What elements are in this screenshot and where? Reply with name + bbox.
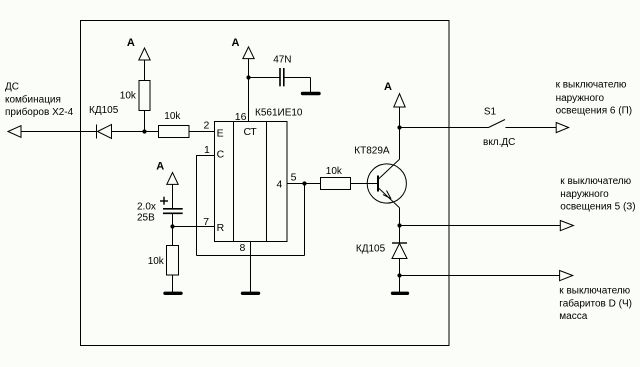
power symbol A (above Q1) <box>384 81 405 128</box>
resistor R4 10k (horizontal) <box>321 166 351 190</box>
svg-text:ДС: ДС <box>5 82 19 93</box>
svg-text:КД105: КД105 <box>89 105 119 116</box>
node: junction output/feedback <box>302 181 306 185</box>
connector arrow (lights switch 5) <box>560 221 573 231</box>
svg-text:освещения 6 (П): освещения 6 (П) <box>556 106 633 117</box>
capacitor C2 2.0x 25В electrolytic <box>137 197 183 224</box>
capacitor C1 47N <box>249 55 311 93</box>
svg-text:габаритов D (Ч): габаритов D (Ч) <box>559 298 632 310</box>
wire: to arrow 3 <box>400 275 560 277</box>
svg-text:А: А <box>232 37 240 49</box>
wire: feedback bottom run <box>197 255 305 257</box>
svg-text:приборов Х2-4: приборов Х2-4 <box>5 106 74 118</box>
wire: left arrow to diode VD1 <box>21 131 96 133</box>
wire: supply node to switch S1 <box>400 127 489 129</box>
svg-text:2: 2 <box>204 119 210 131</box>
power symbol A (above pin 16) <box>232 37 255 59</box>
svg-text:25В: 25В <box>137 213 155 224</box>
svg-text:R: R <box>217 222 225 234</box>
ground (VD2) <box>393 292 408 295</box>
svg-text:к выключателю: к выключателю <box>559 286 630 297</box>
wire: R4 to base <box>351 183 379 185</box>
svg-text:А: А <box>384 81 392 93</box>
svg-text:C: C <box>217 148 225 160</box>
svg-text:К561ИЕ10: К561ИЕ10 <box>255 108 303 119</box>
svg-text:S1: S1 <box>484 106 497 117</box>
svg-text:А: А <box>127 37 135 49</box>
wire: R3 to ground <box>172 275 174 292</box>
svg-text:10k: 10k <box>164 111 181 122</box>
svg-text:комбинация: комбинация <box>5 94 61 106</box>
diode VD1 КД105 (pointing left) <box>89 105 119 139</box>
wire: junction to IC pin 7 <box>173 226 215 228</box>
label: к выключателю наружного освещения 6 (П) <box>556 80 633 117</box>
label: к выключателю габаритов D (Ч) масса <box>559 286 632 322</box>
power symbol A (above C2) <box>156 160 178 208</box>
connector arrow (lights switch 6) <box>556 123 568 133</box>
svg-text:КД105: КД105 <box>356 243 386 254</box>
node: junction supply/collector/S1 <box>397 125 401 129</box>
power symbol A (above R1) <box>127 37 150 80</box>
resistor R2 10k (horizontal) <box>159 111 190 138</box>
label: к выключателю наружного освещения 5 (З) <box>560 176 635 213</box>
wire: IC output to R4 <box>287 183 320 185</box>
node: junction pin16/C47N <box>246 75 250 79</box>
ground (R3) <box>165 292 181 295</box>
svg-text:масса: масса <box>559 311 587 322</box>
connector arrow (dimension lights) <box>560 271 573 281</box>
svg-text:10k: 10k <box>120 91 137 102</box>
svg-text:освещения 5 (З): освещения 5 (З) <box>560 202 635 213</box>
svg-text:4: 4 <box>277 179 283 191</box>
label: ДС комбинация приборов Х2-4 <box>5 82 74 119</box>
wire: emitter down <box>399 208 401 243</box>
node: emitter junction <box>397 223 401 227</box>
wire: R2 to IC pin 2 <box>189 131 214 133</box>
wire: C2 to R3 <box>172 213 174 245</box>
svg-text:47N: 47N <box>273 55 291 66</box>
diode VD2 КД105 (vertical, pointing up) <box>356 243 407 259</box>
svg-text:вкл.ДС: вкл.ДС <box>483 137 515 148</box>
svg-text:наружного: наружного <box>560 189 609 200</box>
node: junction C2/R pin7 <box>170 224 174 228</box>
svg-text:наружного: наружного <box>556 93 605 104</box>
svg-text:1: 1 <box>204 144 210 156</box>
svg-text:10k: 10k <box>326 166 343 177</box>
resistor R3 10k (vertical) <box>148 246 179 276</box>
node: junction R1/main wire <box>142 129 146 133</box>
IC U1 К561ИЕ10 body <box>215 108 303 242</box>
wire: feedback rise to output <box>304 184 306 256</box>
wire: collector up to supply node <box>399 128 401 160</box>
transistor Q1 КТ829А <box>354 146 406 208</box>
resistor R1 10k (vertical) <box>120 81 150 111</box>
connector arrow to X2-4 (left, open triangle) <box>8 126 21 138</box>
ground (C1) <box>303 92 320 95</box>
wire: pin 16 to supply <box>248 59 250 122</box>
wire: R1 to main wire <box>144 111 146 132</box>
svg-text:к выключателю: к выключателю <box>556 80 627 91</box>
wire: pin 1 (C) feedback left/down <box>197 156 215 256</box>
wire: diode to resistor R2 <box>112 131 159 133</box>
svg-text:8: 8 <box>240 242 246 254</box>
enclosure border <box>81 21 450 346</box>
wire: VD2 to ground <box>399 259 401 293</box>
svg-text:E: E <box>217 127 224 139</box>
svg-text:16: 16 <box>235 111 247 123</box>
svg-text:CT: CT <box>244 126 258 138</box>
svg-text:А: А <box>156 160 164 172</box>
ground (pin 8) <box>243 292 259 295</box>
wire: pin 8 to ground <box>250 242 252 293</box>
switch S1 <box>483 106 556 148</box>
wire: emitter to arrow 2 <box>400 225 561 227</box>
svg-text:к выключателю: к выключателю <box>560 176 631 187</box>
svg-text:КТ829А: КТ829А <box>354 146 390 157</box>
svg-text:2.0x: 2.0x <box>137 202 156 213</box>
svg-text:10k: 10k <box>148 256 165 267</box>
svg-text:5: 5 <box>291 172 297 184</box>
svg-text:7: 7 <box>203 216 209 228</box>
node: junction VD2/wire3 <box>397 273 401 277</box>
